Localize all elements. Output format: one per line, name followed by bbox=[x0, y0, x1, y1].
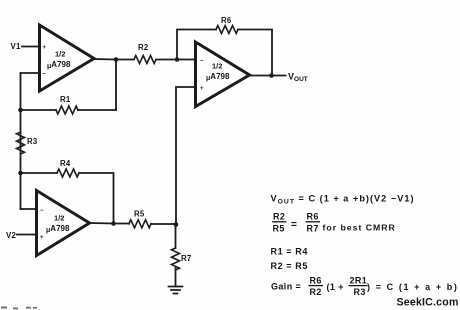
wire R1 right segment bbox=[78, 109, 116, 111]
wire R6 to output bbox=[238, 30, 272, 76]
svg-text:R3: R3 bbox=[27, 137, 38, 146]
op-amp U2 label 1/2 uA798 bbox=[206, 62, 230, 83]
op-amp U3 bbox=[37, 191, 90, 256]
node junction R4 feedback bbox=[111, 221, 116, 226]
svg-text:R2 = R5: R2 = R5 bbox=[271, 261, 308, 271]
op-amp U3 minus mark bbox=[40, 208, 44, 214]
svg-text:−: − bbox=[40, 208, 44, 214]
op-amp U1 minus mark bbox=[43, 72, 47, 78]
wire R7 to ground bbox=[175, 268, 177, 287]
svg-text:Gain =: Gain = bbox=[271, 282, 301, 292]
svg-text:+: + bbox=[40, 235, 44, 241]
wire V1 to U1 + input bbox=[22, 46, 40, 48]
wire U1 output to node bbox=[94, 58, 134, 61]
resistor R5 bbox=[129, 220, 151, 228]
svg-text:1/2: 1/2 bbox=[55, 50, 65, 59]
svg-text:1/2: 1/2 bbox=[54, 214, 64, 223]
svg-text:V2: V2 bbox=[6, 231, 17, 240]
node junction R5/R7 bbox=[174, 222, 179, 227]
svg-text:V1: V1 bbox=[11, 42, 22, 51]
ground bbox=[169, 287, 183, 294]
svg-text:R2: R2 bbox=[310, 287, 322, 297]
svg-text:=: = bbox=[291, 220, 297, 231]
wire R2 to U2 minus input bbox=[156, 59, 196, 61]
wire junction to R7 bbox=[175, 225, 177, 249]
node V2 label bbox=[6, 231, 17, 240]
svg-text:R5: R5 bbox=[273, 224, 285, 234]
wire U2 output bbox=[250, 75, 286, 77]
svg-text:R6: R6 bbox=[221, 16, 232, 25]
formula line 2: R2/R5 = R6/R7 for best CMRR bbox=[272, 212, 396, 234]
resistor R3 bbox=[17, 132, 25, 154]
svg-text:R1 = R4: R1 = R4 bbox=[271, 247, 308, 257]
op-amp U3 plus mark bbox=[40, 235, 44, 241]
formula line 5: Gain = R6/R2 (1 + 2R1/R3) = C (1 + a + b) bbox=[271, 276, 458, 298]
wire U1 minus input from left rail bbox=[21, 72, 40, 74]
svg-text:R2: R2 bbox=[138, 43, 149, 52]
wire R6 branch up bbox=[177, 30, 216, 60]
node VOUT label bbox=[288, 72, 308, 84]
wire U3 output bbox=[90, 222, 129, 225]
op-amp U3 label 1/2 uA798 bbox=[46, 214, 70, 235]
svg-text:for best CMRR: for best CMRR bbox=[323, 223, 396, 233]
wire V2 to U3 plus input bbox=[17, 234, 37, 236]
svg-text:R6: R6 bbox=[310, 276, 322, 286]
op-amp U2 plus mark bbox=[200, 86, 204, 92]
svg-text:R6: R6 bbox=[307, 212, 319, 222]
svg-text:R2: R2 bbox=[273, 212, 285, 222]
node junction R2/R6 bbox=[175, 57, 180, 62]
svg-text:(1 +: (1 + bbox=[327, 282, 344, 292]
resistor R1 bbox=[56, 106, 78, 114]
wire U3 minus input from rail bbox=[21, 208, 38, 210]
svg-text:SeekIC.com: SeekIC.com bbox=[397, 297, 459, 309]
node junction R3/R4 bbox=[18, 171, 23, 176]
op-amp U1 bbox=[40, 25, 95, 91]
bottom-left cropped text fragments bbox=[1, 307, 37, 310]
resistor R7 bbox=[172, 248, 180, 270]
svg-text:1/2: 1/2 bbox=[212, 62, 222, 71]
resistor R4 bbox=[57, 169, 79, 177]
svg-text:μA798: μA798 bbox=[46, 224, 70, 234]
svg-text:R5: R5 bbox=[134, 210, 145, 219]
wire R1 left segment bbox=[21, 109, 57, 111]
node V1 label bbox=[11, 42, 22, 51]
wire feedback down from output node bbox=[115, 60, 117, 111]
op-amp U2 minus mark bbox=[200, 59, 204, 65]
op-amp U1 label 1/2 uA798 bbox=[47, 50, 71, 71]
svg-text:2R1: 2R1 bbox=[350, 276, 368, 286]
resistor R2 bbox=[134, 56, 156, 64]
svg-text:−: − bbox=[43, 72, 47, 78]
svg-text:) = C (1 + a + b): ) = C (1 + a + b) bbox=[367, 282, 458, 292]
node junction R1/R3 bbox=[18, 108, 23, 113]
op-amp U1 plus mark bbox=[43, 45, 47, 51]
resistor R6 bbox=[216, 26, 238, 34]
svg-text:μA798: μA798 bbox=[206, 72, 230, 82]
svg-text:μA798: μA798 bbox=[47, 60, 71, 70]
node junction output bbox=[269, 73, 274, 78]
formula line 1: VOUT = C (1 + a +b)(V2 - V1) bbox=[271, 194, 415, 206]
svg-text:+: + bbox=[43, 45, 47, 51]
wire R4 top segment bbox=[21, 172, 58, 174]
svg-text:R3: R3 bbox=[354, 287, 366, 297]
op-amp U2 bbox=[196, 42, 250, 107]
wire R5 to junction bbox=[151, 223, 176, 225]
node junction output U1 bbox=[114, 57, 119, 62]
svg-text:−: − bbox=[200, 59, 204, 65]
svg-text:R4: R4 bbox=[60, 159, 71, 168]
svg-text:R7: R7 bbox=[181, 254, 192, 263]
svg-text:R1: R1 bbox=[60, 95, 71, 104]
wire left rail vertical bbox=[20, 73, 22, 209]
wire R4 to U3 output node bbox=[79, 173, 114, 224]
svg-text:+: + bbox=[200, 86, 204, 92]
svg-text:R7: R7 bbox=[307, 224, 319, 234]
wire U2 plus input bbox=[176, 87, 196, 225]
